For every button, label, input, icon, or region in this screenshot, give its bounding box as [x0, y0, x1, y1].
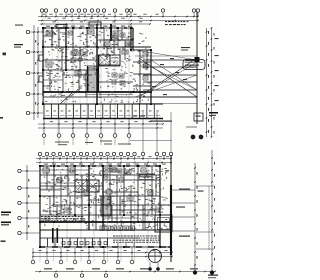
- lower plan right: dimension strings: [193, 150, 215, 274]
- upper plan: right main grid line: [196, 12, 198, 124]
- upper plan: top grid bubbles: [40, 9, 199, 17]
- lower plan: twin elevator shafts with cross: [75, 180, 99, 192]
- lower plan: top grid bubbles: [38, 152, 172, 160]
- lower plan: top exterior wall with windows: [40, 165, 160, 167]
- lower plan: notes paragraph right of cells: [113, 236, 161, 243]
- upper plan: interior text speckle: [45, 30, 150, 102]
- upper plan right: junction blob: [195, 57, 200, 62]
- lower plan: note text above grid row: [55, 141, 131, 146]
- lower plan: bottom grid bubbles: [31, 248, 134, 264]
- upper plan: top dimension line 2: [38, 18, 199, 22]
- lower plan left: grid bubbles column: [18, 165, 40, 240]
- upper plan: right edge dimension strings: [206, 27, 219, 138]
- lower plan: interior text speckle: [43, 168, 169, 229]
- upper plan right: dimension numbers on lines: [152, 58, 187, 95]
- lower plan right: detail box: [155, 215, 172, 232]
- lower plan: bottom exterior wall: [40, 246, 172, 248]
- lower plan: stair core with treads: [101, 196, 111, 216]
- lower plan: fixture blobs: [43, 168, 160, 222]
- lower plan: room dimension text row: [44, 163, 166, 166]
- sheet bottom dimension line: [35, 268, 216, 277]
- upper plan: left wall bay bumps: [39, 55, 43, 82]
- upper plan: bath/kitchen fixture blobs: [46, 30, 148, 80]
- upper plan: left margin label text: [3, 25, 24, 56]
- upper plan: door swing arcs: [55, 41, 142, 76]
- left margin elevation labels: [1, 212, 12, 242]
- upper plan: structural columns: [42, 27, 152, 105]
- upper plan: grid axis lines: [44, 17, 129, 135]
- lower plan: notes paragraph inside plan: [41, 216, 85, 221]
- lower plan: bottom cells band: [40, 228, 140, 247]
- lower plan: extra speckle right half: [103, 170, 168, 228]
- lower plan: micro vertical dashes: [43, 169, 167, 229]
- upper plan right: dark label text: [209, 112, 218, 116]
- lower plan: right exterior wall: [160, 155, 171, 262]
- upper plan: cells band right extension text: [133, 116, 172, 122]
- upper plan: top-right note text block: [165, 21, 188, 25]
- lower plan: door swing arcs: [50, 176, 155, 221]
- left edge small mark: [0, 117, 3, 119]
- upper plan: left grid bubbles and dims: [26, 25, 43, 120]
- upper plan: lower cells band (balcony/storage row): [43, 104, 163, 119]
- lower plan: extra speckle left half: [44, 176, 92, 214]
- lower plan: fixture cluster upper right: [104, 168, 131, 178]
- upper plan: top dimension line 3: [40, 21, 151, 24]
- lower plan: kitchen counter band: [99, 196, 160, 231]
- grid stems between plans right: [130, 112, 172, 152]
- upper plan: top center shaft box: [89, 22, 101, 28]
- lower plan right: note text lines: [139, 174, 190, 237]
- upper plan: bottom grid bubbles: [42, 119, 131, 145]
- upper plan right: callout label text: [181, 47, 190, 51]
- upper plan: left exterior wall: [41, 28, 44, 104]
- upper plan: interior horizontal walls: [43, 40, 197, 97]
- lower plan: left rooms shelving lines: [40, 183, 75, 211]
- upper plan: core area walls: [87, 55, 133, 95]
- upper plan: right exterior walls: [133, 28, 151, 104]
- upper plan right: open area horizontal lines: [135, 56, 197, 104]
- upper plan: extra speckle top band: [46, 30, 130, 60]
- lower plan: interior vertical walls: [47, 166, 152, 230]
- upper plan right: crossing diagonals: [135, 50, 197, 97]
- upper plan: top exterior wall with windows: [43, 27, 133, 29]
- lower plan: grid axis lines: [40, 158, 171, 262]
- upper plan: stair core with treads: [88, 68, 98, 92]
- upper plan: ramp diagonal: [60, 93, 75, 104]
- upper plan: bottom dimension lines: [38, 121, 164, 129]
- lower plan: more interior partitions: [40, 170, 156, 230]
- upper plan right: detail box: [186, 113, 203, 127]
- upper plan: elevator shaft with cross: [99, 55, 120, 65]
- upper plan: top dimension line 1: [38, 14, 199, 17]
- upper plan: top bay window: [56, 25, 67, 29]
- upper plan: more interior partitions: [43, 28, 133, 97]
- lower plan: turning circle symbol: [149, 249, 162, 270]
- lower plan: interior horizontal walls: [40, 175, 171, 230]
- upper plan: fixture cluster left of core: [71, 51, 87, 62]
- upper plan right: filled column bubbles: [191, 135, 203, 139]
- upper plan: interior vertical walls: [52, 24, 147, 104]
- lower plan: left exterior wall: [39, 166, 41, 247]
- upper plan right: callout balloon 1: [183, 60, 205, 70]
- upper plan: extra speckle mid-left: [46, 49, 98, 92]
- lower plan: structural columns: [39, 165, 172, 248]
- sheet background: [0, 0, 220, 280]
- lower plan: bottom dimension lines: [32, 250, 173, 257]
- upper plan: room dimension text row: [46, 26, 132, 27]
- upper plan: micro vertical dashes: [45, 32, 149, 104]
- sheet corner text: [208, 275, 218, 279]
- lower plan right: projecting lines: [172, 190, 195, 231]
- upper plan: fixture cluster right of core: [112, 33, 130, 85]
- lower plan: top dimension lines: [36, 156, 172, 163]
